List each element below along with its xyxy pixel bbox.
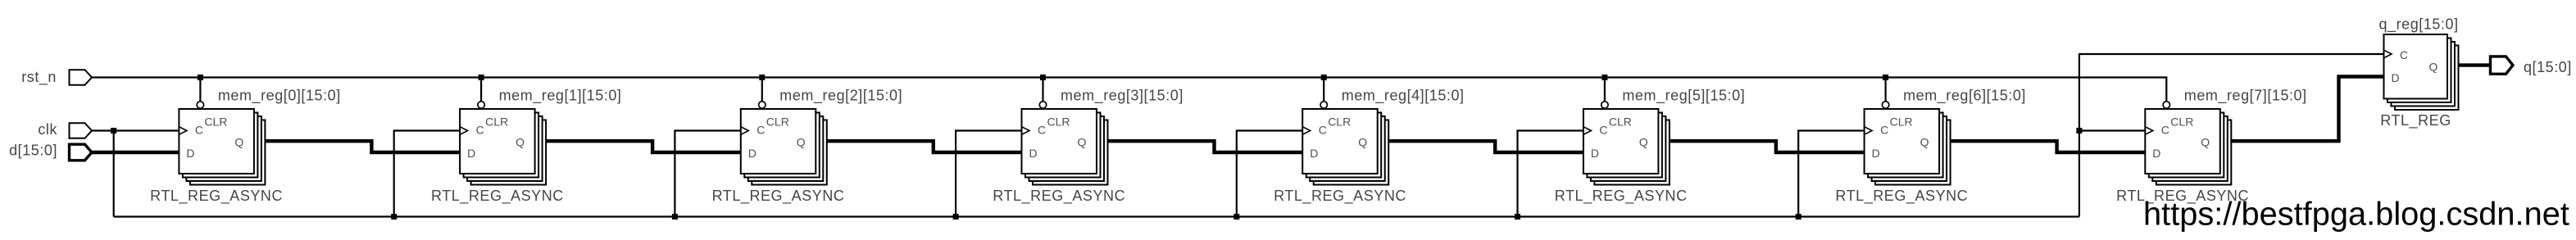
svg-text:Q: Q (2201, 136, 2210, 149)
svg-text:D: D (467, 147, 475, 160)
wire mem_reg[7] Q to q_reg D bus (2220, 77, 2386, 142)
wire clk from port to mem_reg[0] C (91, 129, 181, 131)
svg-text:RTL_REG_ASYNC: RTL_REG_ASYNC (431, 188, 564, 205)
svg-text:RTL_REG_ASYNC: RTL_REG_ASYNC (1274, 188, 1406, 205)
svg-text:RTL_REG_ASYNC: RTL_REG_ASYNC (712, 188, 845, 205)
wire rst drop to mem_reg[6] CLR (1885, 78, 1887, 102)
port d[15:0] (70, 144, 93, 161)
svg-text:https://bestfpga.blog.csdn.net: https://bestfpga.blog.csdn.net (2143, 196, 2569, 232)
svg-text:D: D (2392, 71, 2400, 84)
wire mem_reg[0] Q to mem_reg[1] D bus (254, 141, 461, 152)
svg-text:mem_reg[0][15:0]: mem_reg[0][15:0] (218, 88, 341, 105)
junction clk bottom net riser 6 (1796, 214, 1801, 220)
svg-text:mem_reg[7][15:0]: mem_reg[7][15:0] (2184, 88, 2307, 105)
wire clk riser to mem_reg[5] C (1518, 131, 1585, 217)
svg-text:d[15:0]: d[15:0] (9, 143, 57, 159)
wire rst drop to mem_reg[1] CLR (480, 78, 482, 102)
wire rst drop to mem_reg[2] CLR (761, 78, 763, 102)
svg-text:RTL_REG_ASYNC: RTL_REG_ASYNC (993, 188, 1125, 205)
svg-text:q_reg[15:0]: q_reg[15:0] (2379, 16, 2459, 34)
junction clk bottom net riser 5 (1515, 214, 1520, 220)
junction rst / mem_reg[5] CLR drop (1601, 75, 1607, 80)
svg-text:mem_reg[1][15:0]: mem_reg[1][15:0] (499, 88, 622, 105)
svg-text:mem_reg[5][15:0]: mem_reg[5][15:0] (1622, 88, 1745, 105)
register U3 mem_reg[2][15:0] RTL_REG_ASYNC (741, 102, 827, 185)
wire rst drop to mem_reg[5] CLR (1604, 78, 1606, 102)
wire rst drop to mem_reg[4] CLR (1323, 78, 1324, 102)
svg-text:mem_reg[2][15:0]: mem_reg[2][15:0] (779, 88, 902, 105)
svg-text:Q: Q (1920, 136, 1929, 149)
port rst_n (70, 70, 93, 85)
wire mem_reg[4] Q to mem_reg[5] D bus (1378, 141, 1585, 152)
svg-text:D: D (748, 147, 756, 160)
wire d[15:0] from port to mem_reg[0] D (91, 151, 181, 154)
junction clk riser / mem_reg[7] C (2076, 128, 2082, 134)
wire clk riser to mem_reg[6] C (1798, 131, 1865, 217)
junction rst / mem_reg[2] CLR drop (759, 75, 765, 80)
wire mem_reg[3] Q to mem_reg[4] D bus (1097, 141, 1304, 152)
svg-text:mem_reg[4][15:0]: mem_reg[4][15:0] (1342, 88, 1465, 105)
svg-text:RTL_REG: RTL_REG (2380, 112, 2451, 129)
wire mem_reg[6] Q to mem_reg[7] D bus (1939, 141, 2147, 152)
junction clk bottom net riser 1 (391, 214, 397, 220)
wire clk riser to mem_reg[2] C (675, 131, 742, 217)
register U1 mem_reg[0][15:0] RTL_REG_ASYNC (179, 102, 265, 185)
svg-text:mem_reg[3][15:0]: mem_reg[3][15:0] (1061, 88, 1184, 105)
wire mem_reg[1] Q to mem_reg[2] D bus (535, 141, 743, 152)
svg-text:C: C (1319, 124, 1327, 137)
junction clk bottom net riser 2 (672, 214, 678, 220)
register U8 mem_reg[7][15:0] RTL_REG_ASYNC (2145, 102, 2231, 185)
register U6 mem_reg[5][15:0] RTL_REG_ASYNC (1583, 102, 1670, 185)
svg-text:CLR: CLR (2170, 115, 2193, 129)
junction clk bottom net riser 4 (1233, 214, 1239, 220)
svg-text:rst_n: rst_n (21, 69, 57, 86)
junction rst / mem_reg[6] CLR drop (1883, 75, 1888, 80)
svg-text:Q: Q (1078, 136, 1087, 149)
svg-text:Q: Q (516, 136, 525, 149)
wire clk down-left riser (113, 131, 115, 217)
register U4 mem_reg[3][15:0] RTL_REG_ASYNC (1022, 102, 1108, 185)
svg-text:RTL_REG_ASYNC: RTL_REG_ASYNC (1555, 188, 1688, 205)
svg-text:mem_reg[6][15:0]: mem_reg[6][15:0] (1903, 88, 2026, 105)
svg-text:Q: Q (1639, 136, 1648, 149)
register U7 mem_reg[6][15:0] RTL_REG_ASYNC (1865, 102, 1951, 185)
svg-text:CLR: CLR (204, 115, 227, 129)
junction rst / mem_reg[0] CLR drop (198, 75, 203, 80)
junction clk bottom net riser 3 (953, 214, 959, 220)
svg-text:clk: clk (38, 121, 57, 138)
register U5 mem_reg[4][15:0] RTL_REG_ASYNC (1302, 102, 1388, 185)
register U2 mem_reg[1][15:0] RTL_REG_ASYNC (460, 102, 546, 185)
svg-text:CLR: CLR (1047, 115, 1070, 129)
svg-text:CLR: CLR (1609, 115, 1632, 129)
junction clk port branch (111, 128, 116, 134)
svg-text:C: C (756, 124, 765, 137)
svg-text:CLR: CLR (766, 115, 789, 129)
svg-text:C: C (1038, 124, 1046, 137)
junction rst / mem_reg[3] CLR drop (1040, 75, 1046, 80)
svg-text:CLR: CLR (1328, 115, 1351, 129)
register U9 q_reg[15:0] RTL_REG (2384, 34, 2459, 110)
wire q_reg Q to q[15:0] port (2447, 63, 2491, 66)
svg-text:C: C (2161, 124, 2169, 137)
wire clk branch to mem_reg[7] C (2079, 129, 2147, 131)
svg-text:D: D (1029, 147, 1038, 160)
wire mem_reg[2] Q to mem_reg[3] D bus (816, 141, 1023, 152)
wire clk bottom distribution net (114, 215, 2079, 217)
svg-text:D: D (186, 147, 194, 160)
svg-text:Q: Q (797, 136, 806, 149)
port q[15:0] output (2491, 57, 2514, 74)
svg-text:Q: Q (2429, 60, 2438, 73)
wire clk riser to mem_reg[4] C (1237, 131, 1304, 217)
wire rst drop to mem_reg[3] CLR (1042, 78, 1043, 102)
svg-text:q[15:0]: q[15:0] (2524, 59, 2572, 75)
svg-text:C: C (195, 124, 203, 137)
svg-text:C: C (476, 124, 484, 137)
wire mem_reg[5] Q to mem_reg[6] D bus (1658, 141, 1865, 152)
wire rst_n corner down to mem_reg[7] CLR (1886, 78, 2167, 102)
svg-text:CLR: CLR (485, 115, 508, 129)
svg-text:D: D (1591, 147, 1599, 160)
wire rst_n horizontal net (91, 76, 1886, 78)
svg-text:RTL_REG_ASYNC: RTL_REG_ASYNC (1835, 188, 1968, 205)
svg-text:Q: Q (234, 136, 243, 149)
wire clk riser to mem_reg[7] C and q_reg C (2079, 54, 2386, 217)
port clk (70, 123, 93, 138)
svg-text:RTL_REG_ASYNC: RTL_REG_ASYNC (150, 188, 283, 205)
svg-text:C: C (2400, 48, 2408, 61)
svg-text:D: D (1310, 147, 1318, 160)
junction rst / mem_reg[1] CLR drop (479, 75, 484, 80)
svg-text:D: D (2152, 147, 2160, 160)
svg-text:D: D (1872, 147, 1880, 160)
junction rst / mem_reg[4] CLR drop (1321, 75, 1327, 80)
svg-text:Q: Q (1358, 136, 1367, 149)
wire rst drop to mem_reg[0] CLR (199, 78, 201, 102)
svg-text:C: C (1880, 124, 1888, 137)
svg-text:CLR: CLR (1890, 115, 1913, 129)
wire clk riser to mem_reg[3] C (956, 131, 1023, 217)
wire clk riser to mem_reg[1] C (394, 131, 461, 217)
svg-text:C: C (1599, 124, 1607, 137)
